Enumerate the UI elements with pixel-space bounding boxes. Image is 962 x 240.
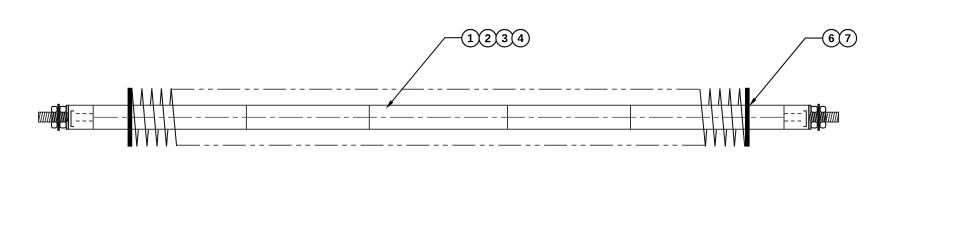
spring back coils (right, hidden behind tube) <box>705 88 739 146</box>
phantom outer bottom <box>177 144 705 146</box>
joint J4 <box>507 105 509 129</box>
joint J2 <box>245 105 247 129</box>
joint J1 <box>92 105 94 129</box>
joint J3 <box>368 105 370 129</box>
hex nut N2 caps (right) <box>811 106 817 128</box>
threaded stud (left) <box>39 112 52 122</box>
hidden thread dashes lower (left) <box>76 120 93 122</box>
balloon 1 <box>462 30 479 47</box>
leader arrowhead (right callout) <box>749 98 756 107</box>
balloon 4 <box>512 30 529 47</box>
leader line (left callout) <box>391 38 462 103</box>
balloon 7 <box>839 30 856 47</box>
washer W2 (right) <box>809 105 811 129</box>
joint J6 <box>783 105 785 129</box>
shaft end face (left) <box>68 105 70 129</box>
flange bar (right) <box>745 88 750 147</box>
hidden hole bracket (right) <box>803 111 806 127</box>
hex nut N2 caps (left) <box>60 106 66 128</box>
thread band between nuts (left) <box>51 112 68 121</box>
inner tube bottom line <box>69 128 809 130</box>
centerline <box>94 116 783 118</box>
hidden hole bracket (left) <box>71 111 74 127</box>
flange bar (left) <box>128 88 133 147</box>
threaded stud (right) <box>826 112 839 122</box>
leader arrowhead (left callout) <box>386 100 393 109</box>
balloon 6 <box>823 30 840 47</box>
hex nut N1 top cap (left) <box>52 106 58 128</box>
hidden thread dashes upper (right) <box>784 113 801 115</box>
spring front coils (right) <box>700 88 745 146</box>
spring back coils (left, hidden behind tube) <box>137 88 171 146</box>
hidden thread dashes upper (left) <box>76 113 93 115</box>
thread band between nuts (right) <box>809 112 826 121</box>
inner tube top line <box>69 104 809 106</box>
washer W2 (left) <box>66 105 68 129</box>
hidden thread dashes lower (right) <box>784 120 801 122</box>
shaft end face (right) <box>808 105 810 129</box>
washer W1 (right) <box>817 104 820 131</box>
phantom outer top <box>171 88 699 90</box>
joint J5 <box>630 105 632 129</box>
leader line (right callout) <box>754 38 823 100</box>
washer W1 (left) <box>57 104 60 131</box>
balloon 2 <box>479 30 496 47</box>
spring front coils (left) <box>132 88 177 146</box>
hex nut N1 caps (right) <box>820 106 826 128</box>
balloon 3 <box>496 30 513 47</box>
